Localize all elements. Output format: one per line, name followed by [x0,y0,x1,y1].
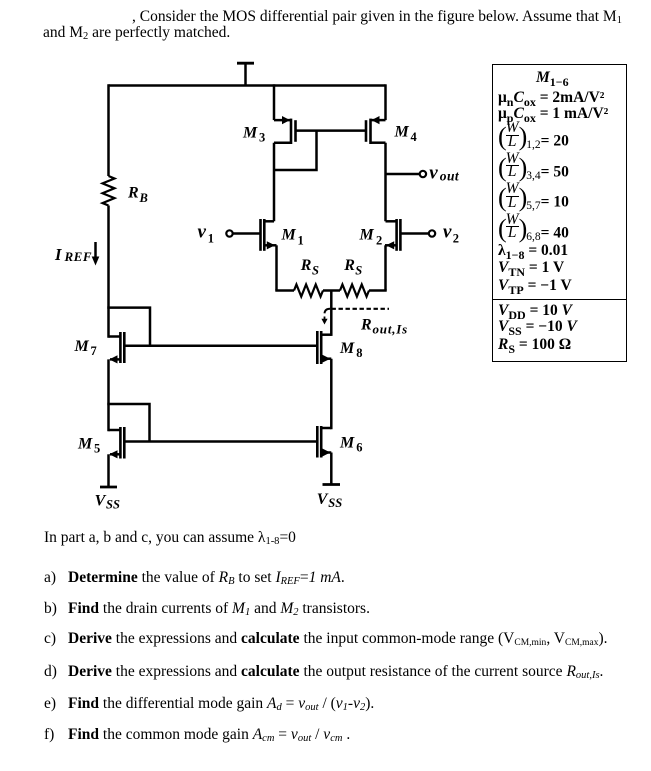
VSS terminal bar left [100,486,117,489]
svg-text:1: 1 [208,232,214,246]
svg-text:SS: SS [106,497,120,511]
resistor RS right [340,285,369,297]
question text [44,529,296,547]
svg-text:M: M [339,340,355,357]
transistor M7 [109,332,125,364]
wire: M3 source up to rail [273,84,276,120]
svg-text:R: R [360,317,372,334]
circuit schematic [0,0,651,520]
svg-text:4: 4 [411,130,418,144]
problem statement paragraph [43,9,635,41]
svg-text:7: 7 [91,344,97,358]
label VSS left [95,492,120,511]
transistor M5 [109,427,125,459]
svg-text:8: 8 [356,346,362,360]
wire: right RS to M2 source [369,289,387,292]
svg-text:M: M [281,227,297,244]
wire: center node between RS resistors [323,289,340,292]
label RB [127,185,148,205]
wire: gate line M7 to M8 [124,345,316,348]
svg-text:R: R [127,185,139,202]
wire: gate line M3 to M4 [296,129,367,132]
current arrow IREF [92,242,100,266]
svg-text:S: S [355,263,362,277]
dashed boundary line for Rout,Is [332,308,390,310]
dashed current arrow into M8 [321,309,330,325]
wire: M5 source to VSS [107,454,110,487]
svg-text:M: M [242,125,258,142]
svg-text:REF: REF [64,249,93,264]
svg-text:R: R [343,257,355,274]
label RS left [300,257,319,277]
wire: left branch from rail down to RB [107,84,110,176]
resistor RS left [294,285,323,297]
transistor M2 [385,219,400,251]
svg-text:5: 5 [94,441,100,455]
svg-text:B: B [139,191,148,205]
wire: M1 source down to RS [275,245,278,290]
svg-text:out,Is: out,Is [373,322,409,337]
svg-text:out: out [440,169,460,184]
node vout terminal circle [420,171,426,177]
resistor RB [103,176,115,206]
label M4 [394,124,418,145]
svg-text:I: I [54,245,62,264]
wire: RS tail node down to M8 drain [330,291,333,336]
wire: M7 source to M5 drain [107,359,110,431]
svg-text:v: v [198,222,207,243]
svg-text:M: M [394,124,410,141]
node v2 terminal circle [429,230,435,236]
wire: M8 source to M6 drain [330,359,333,430]
svg-text:6: 6 [356,440,362,454]
svg-text:R: R [300,257,312,274]
svg-text:v: v [429,163,438,184]
label vout [429,163,460,184]
label M3 [242,125,265,145]
wire: top VDD rail [109,84,386,87]
VSS terminal bar right [323,483,341,486]
svg-text:SS: SS [328,496,342,510]
VDD supply T symbol [237,63,254,85]
svg-text:1: 1 [298,233,304,247]
label RS right [343,257,362,277]
label M1 [281,227,304,248]
label M7 [74,338,97,358]
wire: M2 gate lead [400,232,428,235]
svg-text:3: 3 [259,131,265,145]
label M5 [77,435,100,455]
svg-text:M: M [359,227,375,244]
label Rout,Is [360,317,408,337]
label M8 [339,340,363,360]
svg-text:M: M [77,435,93,452]
wire: M4 source up to rail [384,84,387,120]
wire: M2 source down to RS [384,245,387,290]
wire: vout branch [386,173,420,176]
transistor M4 [366,116,386,144]
label M2 [359,227,383,248]
svg-text:2: 2 [453,232,459,246]
label VSS right [317,491,342,510]
svg-text:M: M [339,435,355,452]
svg-text:S: S [312,263,319,277]
wire: gate line M5 to M6 [124,440,316,443]
label v2 [443,222,459,246]
svg-text:v: v [443,222,452,243]
label v1 [198,222,214,246]
label IREF [54,245,92,264]
transistor M6 [317,426,331,458]
device parameter box [492,64,627,362]
wire: M4 drain down to M2 drain [384,143,387,222]
svg-text:V: V [317,491,329,508]
svg-text:M: M [74,338,90,355]
transistor M3 [274,116,296,144]
wire: M6 source to VSS [330,453,333,485]
label M6 [339,435,363,455]
wire: M1 source to left RS [275,289,294,292]
transistor M1 [261,219,277,251]
svg-text:2: 2 [376,233,382,247]
wire: RB bottom down to M7 drain [107,206,110,338]
wire: M3 gate-drain diode connection [274,131,317,170]
transistor M8 [317,331,331,364]
wire: M3 drain down to M1 drain [273,143,276,222]
wire: M7 diode connection loop [107,308,150,346]
wire: M1 gate lead [233,232,261,235]
wire: M5 diode connection loop [107,404,149,442]
svg-text:V: V [95,492,107,509]
node v1 terminal circle [226,230,232,236]
